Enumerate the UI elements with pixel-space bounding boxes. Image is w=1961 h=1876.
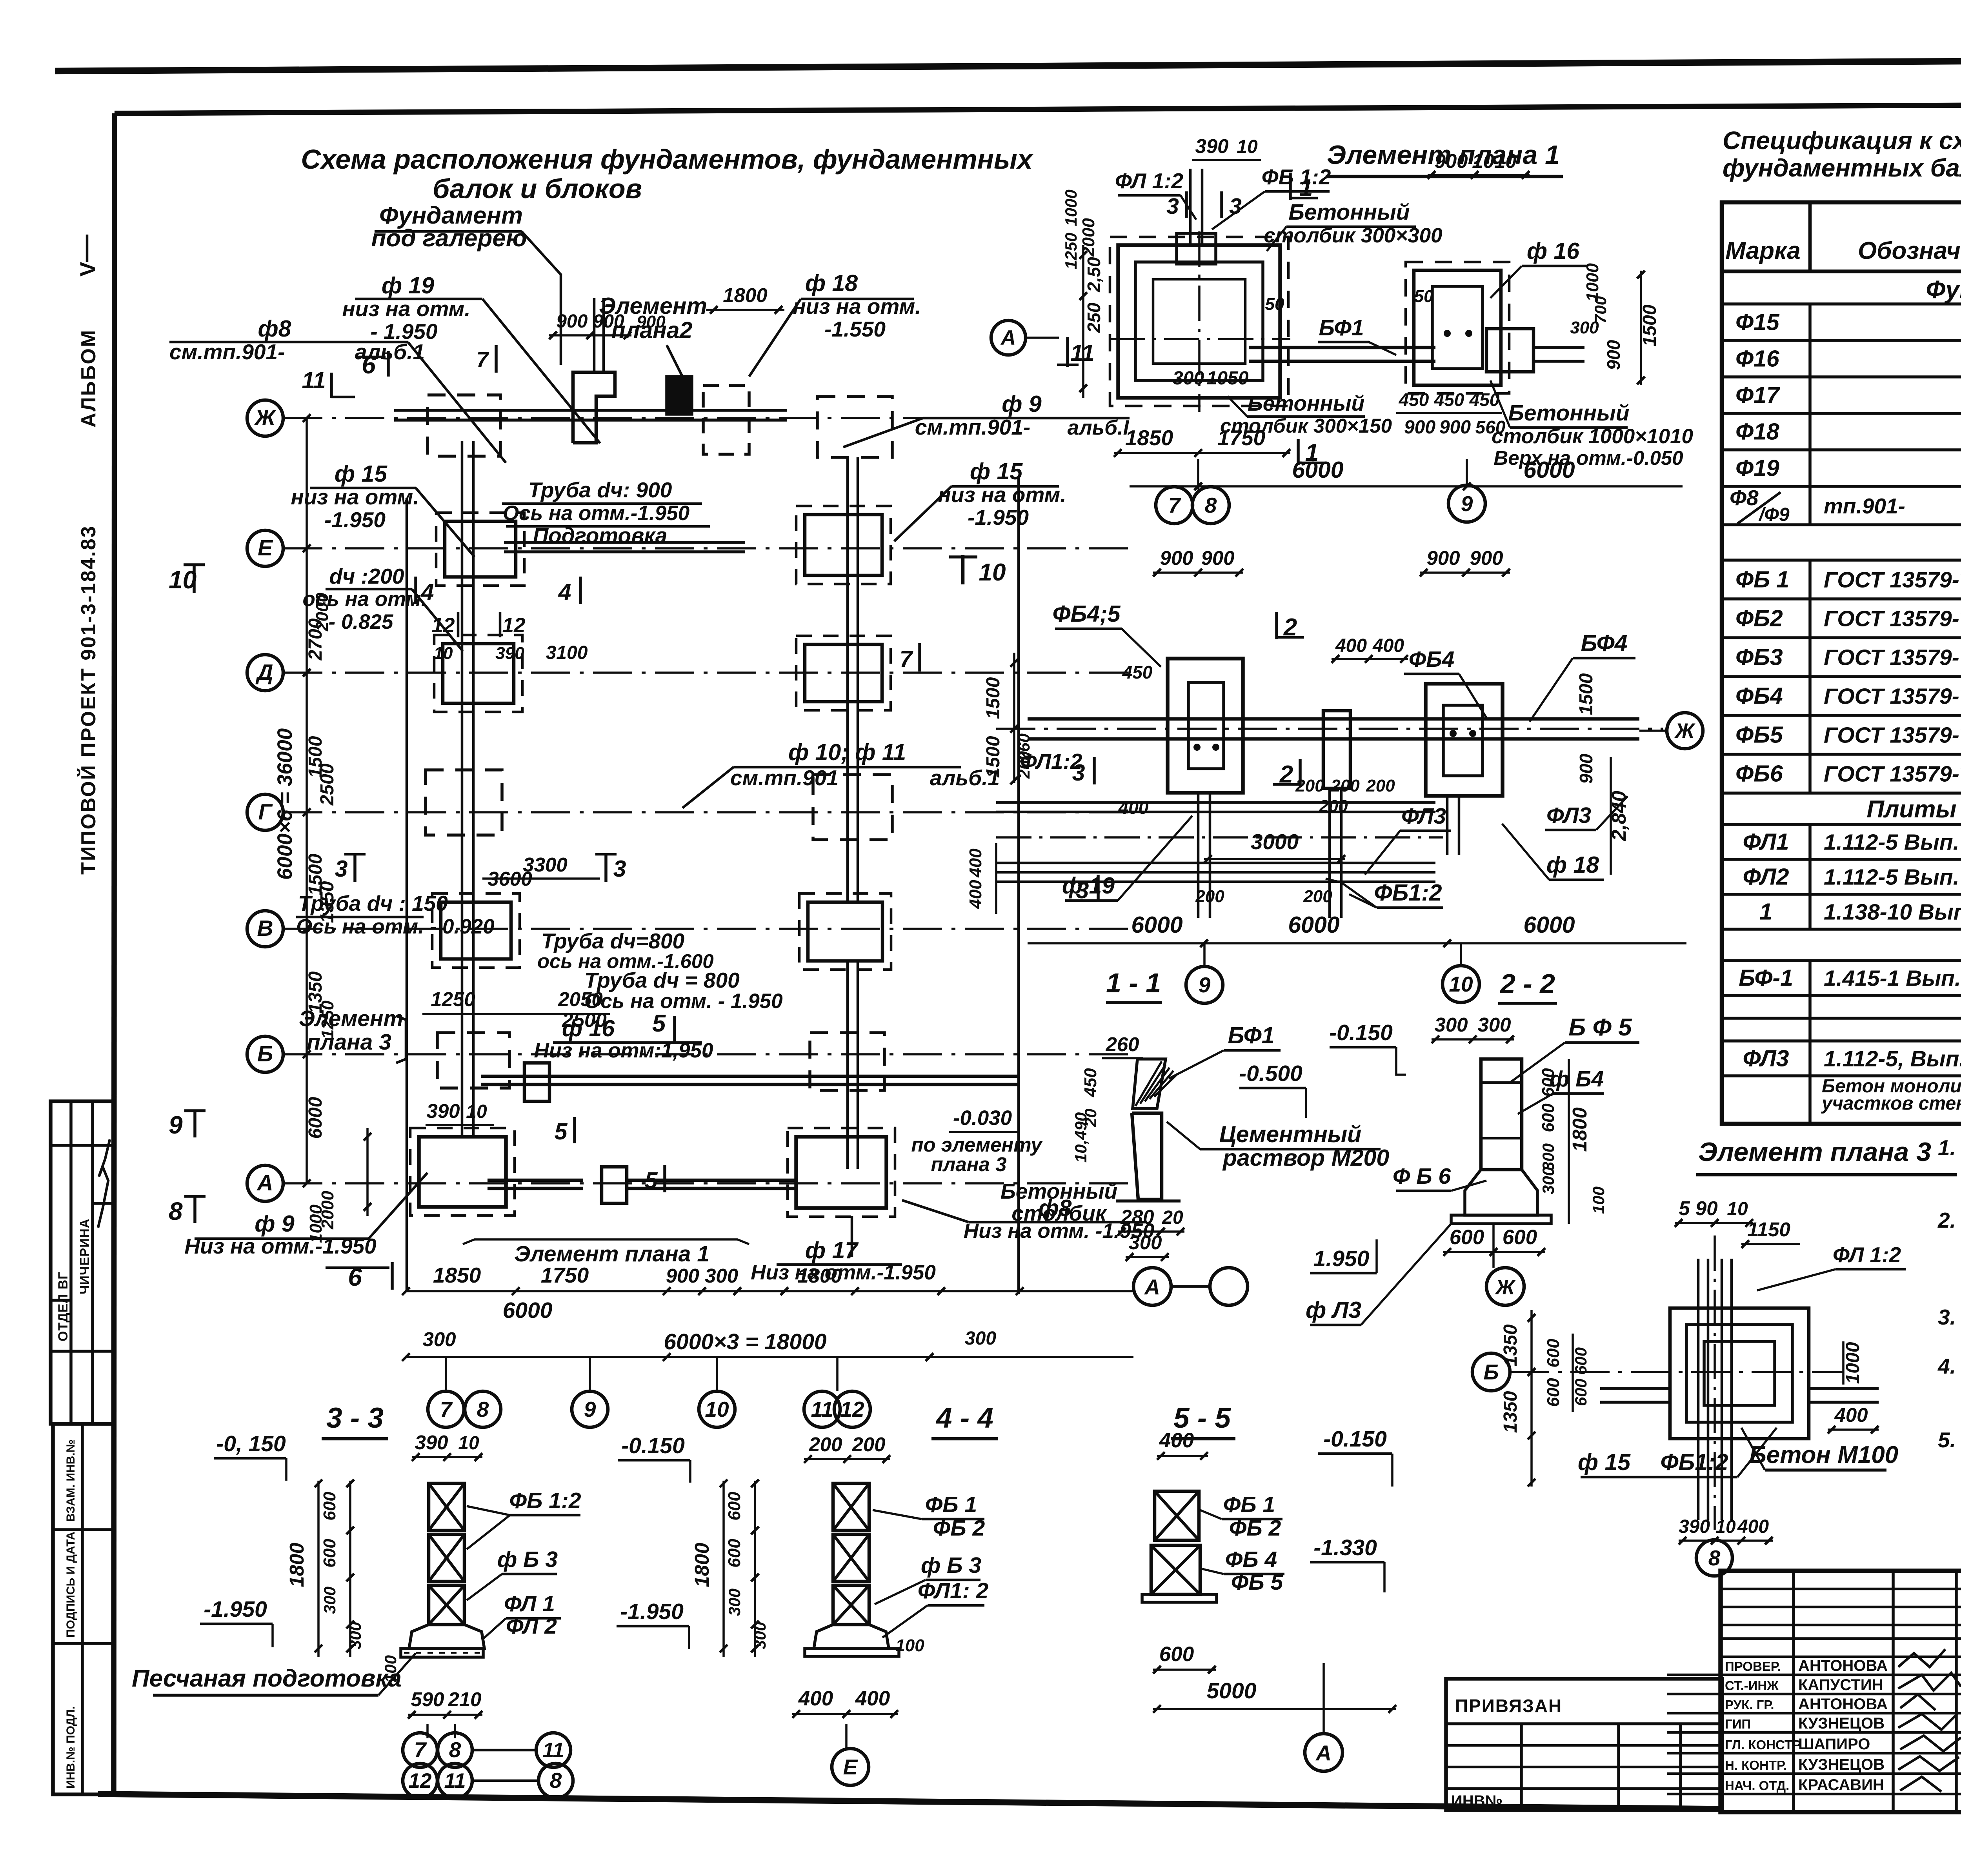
svg-text:300: 300 — [725, 1589, 744, 1616]
section: Блоки бетонные — [1722, 559, 1961, 562]
svg-text:590: 590 — [411, 1688, 444, 1710]
эп3 concentric rects — [1670, 1308, 1809, 1439]
section 4-4 circle Е — [832, 1749, 869, 1785]
svg-text:10: 10 — [466, 1101, 487, 1122]
svg-text:300: 300 — [1128, 1231, 1162, 1254]
svg-text:ФБ 1: ФБ 1 — [925, 1492, 977, 1517]
svg-text:ФЛ1: 2: ФЛ1: 2 — [918, 1578, 989, 1603]
svg-text:6000×3 = 18000: 6000×3 = 18000 — [664, 1329, 827, 1354]
svg-text:390: 390 — [1679, 1516, 1710, 1537]
svg-text:ФБ1:2: ФБ1:2 — [1660, 1449, 1728, 1475]
svg-text:390: 390 — [1195, 135, 1228, 157]
title block signature rows — [1721, 1674, 1961, 1676]
svg-text:11: 11 — [444, 1769, 466, 1792]
svg-text:10: 10 — [458, 1433, 479, 1454]
svg-text:260: 260 — [1105, 1033, 1139, 1055]
svg-text:Н. КОНТР.: Н. КОНТР. — [1725, 1758, 1787, 1772]
svg-text:4.: 4. — [1937, 1354, 1956, 1378]
svg-text:ФЛ 1: ФЛ 1 — [504, 1591, 555, 1616]
foundation column1 dashed at 1007 — [427, 395, 500, 456]
svg-text:200: 200 — [1330, 776, 1360, 795]
svg-text:тп.901-: тп.901- — [1824, 494, 1905, 518]
svg-text:ГОСТ 13579-78: ГОСТ 13579-78 — [1824, 723, 1961, 748]
foundation column1 big at A — [419, 1137, 506, 1207]
svg-text:450: 450 — [1434, 389, 1464, 410]
svg-text:6: 6 — [362, 351, 376, 379]
svg-text:РУК. ГР.: РУК. ГР. — [1725, 1698, 1774, 1712]
svg-text:5.: 5. — [1938, 1428, 1956, 1452]
svg-text:- 0.825: - 0.825 — [328, 610, 394, 633]
svg-text:ФБ 1: ФБ 1 — [1223, 1492, 1275, 1517]
svg-text:1050: 1050 — [1207, 368, 1249, 389]
svg-text:ф 15: ф 15 — [1578, 1449, 1631, 1475]
beam A row — [488, 1179, 583, 1182]
svg-text:200: 200 — [1195, 887, 1224, 906]
svg-text:900 900: 900 900 — [556, 311, 624, 332]
svg-text:200: 200 — [1319, 797, 1348, 816]
svg-text:1.415-1 Вып. 1: 1.415-1 Вып. 1 — [1824, 966, 1961, 991]
svg-text:900: 900 — [1603, 340, 1624, 370]
pipe column 2 — [846, 457, 849, 902]
section 1-1 base — [1116, 1199, 1181, 1203]
svg-text:Е: Е — [258, 535, 273, 560]
svg-text:-1.950: -1.950 — [620, 1599, 684, 1624]
table row ФБ 1 — [1722, 597, 1961, 600]
svg-text:400: 400 — [1834, 1404, 1868, 1426]
svg-text:600: 600 — [1572, 1379, 1590, 1406]
svg-text:10: 10 — [1715, 1516, 1736, 1537]
svg-text:2500: 2500 — [317, 763, 338, 806]
svg-text:250: 250 — [1084, 302, 1104, 333]
svg-text:ГИП: ГИП — [1725, 1717, 1751, 1731]
svg-text:390: 390 — [426, 1100, 460, 1122]
svg-text:900: 900 — [1470, 547, 1503, 569]
axis circle Ж — [247, 400, 283, 436]
section 2-2 base plate — [1451, 1215, 1551, 1224]
svg-text:9: 9 — [1199, 973, 1211, 997]
эп1 dims right 1500 900 — [1640, 271, 1642, 385]
svg-text:ф 10; ф 11: ф 10; ф 11 — [788, 739, 906, 765]
svg-text:1350: 1350 — [1500, 1324, 1521, 1366]
svg-text:600: 600 — [1544, 1339, 1563, 1368]
svg-text:9: 9 — [584, 1397, 596, 1421]
svg-text:ф 9: ф 9 — [255, 1211, 295, 1237]
svg-text:ГОСТ 13579-78: ГОСТ 13579-78 — [1824, 568, 1961, 593]
spec table outer frame — [1722, 202, 1961, 1124]
svg-text:1350: 1350 — [1500, 1391, 1521, 1433]
svg-text:12: 12 — [432, 614, 455, 637]
svg-text:БФ4: БФ4 — [1581, 630, 1627, 656]
section 3-3 base plate — [401, 1649, 483, 1657]
svg-text:5 90: 5 90 — [1679, 1197, 1717, 1219]
svg-text:280: 280 — [1120, 1206, 1154, 1228]
upper left stamp table — [51, 1101, 113, 1424]
svg-text:100: 100 — [381, 1655, 400, 1683]
svg-text:1500: 1500 — [983, 677, 1004, 719]
svg-text:300: 300 — [1539, 1167, 1557, 1194]
svg-text:Элемент: Элемент — [299, 1006, 403, 1031]
эп2 foundation 2 small — [1323, 711, 1350, 788]
svg-text:600: 600 — [1503, 1226, 1537, 1249]
svg-text:2 - 2: 2 - 2 — [1499, 968, 1555, 999]
svg-text:ШАПИРО: ШАПИРО — [1798, 1736, 1870, 1753]
svg-text:ОТДЕЛ ВГ: ОТДЕЛ ВГ — [56, 1272, 71, 1341]
svg-text:участков стен: участков стен — [1821, 1093, 1961, 1114]
section mark T10 — [961, 555, 965, 584]
svg-text:8: 8 — [550, 1768, 562, 1792]
svg-text:1 - 1: 1 - 1 — [1106, 968, 1161, 998]
axis dash-dot line В — [283, 928, 1133, 930]
axis dash-dot line Ж — [283, 417, 1133, 419]
table row ФБ5 — [1722, 753, 1961, 756]
svg-text:плана 3: плана 3 — [307, 1030, 391, 1055]
svg-text:200: 200 — [851, 1433, 885, 1456]
svg-text:400: 400 — [1372, 635, 1404, 656]
svg-text:1.: 1. — [1938, 1135, 1956, 1160]
svg-text:3600: 3600 — [488, 868, 532, 890]
svg-text:2,840: 2,840 — [1608, 791, 1630, 841]
svg-text:300: 300 — [422, 1328, 456, 1350]
table row ФБ4 — [1722, 714, 1961, 717]
axis dash-dot line Г — [283, 811, 1133, 813]
svg-text:КУЗНЕЦОВ: КУЗНЕЦОВ — [1798, 1756, 1885, 1773]
svg-text:ФБ 1: ФБ 1 — [1735, 567, 1789, 593]
svg-text:900: 900 — [1201, 547, 1234, 569]
svg-text:ИНВ.№ ПОДЛ.: ИНВ.№ ПОДЛ. — [64, 1706, 77, 1789]
svg-text:Верх на отм.-0.050: Верх на отм.-0.050 — [1493, 447, 1683, 469]
svg-text:Бетонный: Бетонный — [1248, 391, 1364, 415]
svg-text:ФБ 1:2: ФБ 1:2 — [509, 1488, 581, 1513]
plan long vertical wall right — [1017, 478, 1020, 1294]
svg-text:1250: 1250 — [1062, 233, 1080, 269]
foundation column1 dashed at 1963 — [426, 770, 502, 835]
эп1 beam — [1249, 346, 1435, 349]
svg-text:100: 100 — [1589, 1186, 1608, 1214]
эп1 bottom circles 7 8 9 — [1156, 487, 1193, 524]
эп3 axis circle Б — [1472, 1353, 1510, 1391]
svg-text:1000: 1000 — [1583, 263, 1602, 302]
svg-text:ФБ1:2: ФБ1:2 — [1374, 880, 1442, 906]
table row 1 — [1722, 928, 1961, 931]
svg-text:6000: 6000 — [305, 1097, 326, 1139]
svg-text:ось на отм.: ось на отм. — [303, 588, 427, 611]
svg-text:ПОДПИСЬ И ДАТА: ПОДПИСЬ И ДАТА — [64, 1532, 77, 1638]
svg-text:ФЛ3: ФЛ3 — [1743, 1046, 1789, 1072]
svg-text:ф 15: ф 15 — [970, 459, 1023, 484]
svg-text:АЛЬБОМ: АЛЬБОМ — [77, 329, 100, 428]
axis dash-dot line Б — [283, 1053, 1133, 1055]
svg-text:200: 200 — [1366, 776, 1395, 795]
svg-text:Г: Г — [258, 799, 273, 824]
svg-text:3: 3 — [613, 856, 626, 882]
pipe column 1 — [461, 441, 464, 1137]
svg-text:1000: 1000 — [1062, 189, 1080, 226]
title block grid — [1792, 1571, 1795, 1812]
axis dash-dot line Д — [283, 671, 1133, 674]
svg-text:Фундаменты монолитные: Фундаменты монолитные — [1926, 275, 1961, 304]
svg-text:600: 600 — [1450, 1226, 1484, 1249]
svg-text:ГОСТ 13579-78: ГОСТ 13579-78 — [1824, 684, 1961, 709]
beam B row — [481, 1075, 1019, 1078]
svg-text:V: V — [75, 262, 100, 277]
svg-text:10,490: 10,490 — [1071, 1112, 1090, 1163]
svg-text:по элементу: по элементу — [911, 1134, 1043, 1156]
foundation column2 solid at 1643 — [805, 644, 882, 702]
circle A top right of plan — [991, 320, 1026, 355]
svg-text:3 - 3: 3 - 3 — [326, 1402, 384, 1434]
svg-text:ФЛ 1:2: ФЛ 1:2 — [1833, 1243, 1901, 1267]
section 3-3 base flare — [409, 1625, 484, 1649]
эп2 foundation 3 — [1426, 684, 1503, 796]
svg-text:10: 10 — [705, 1397, 729, 1421]
svg-text:Ф19: Ф19 — [1735, 455, 1779, 481]
svg-text:ФЛ3: ФЛ3 — [1401, 804, 1446, 829]
foundation column1 dashed at 2633 — [437, 1033, 509, 1088]
svg-text:dч :200: dч :200 — [329, 564, 404, 588]
section: Плиты ж-б для ленточных фундаментов — [1722, 823, 1961, 826]
svg-text:2000: 2000 — [1079, 218, 1098, 257]
svg-text:300: 300 — [1477, 1014, 1511, 1036]
svg-text:-1.950: -1.950 — [324, 508, 386, 532]
bottom axis circles — [428, 1391, 464, 1427]
svg-text:1000: 1000 — [1843, 1342, 1863, 1384]
svg-text:1.950: 1.950 — [1313, 1246, 1370, 1271]
эп3 pipes vertical — [1697, 1259, 1700, 1520]
signature squiggle — [98, 1139, 110, 1228]
svg-text:1800: 1800 — [1568, 1107, 1591, 1152]
foundation column1 solid at 1641 — [443, 644, 514, 703]
axis circle Е — [247, 530, 283, 566]
svg-text:-0.150: -0.150 — [621, 1433, 685, 1458]
svg-text:8: 8 — [1708, 1546, 1721, 1570]
svg-text:4: 4 — [558, 579, 571, 605]
svg-text:450: 450 — [1399, 389, 1429, 410]
svg-text:ФБ6: ФБ6 — [1735, 761, 1783, 787]
эп1 foundation 2 — [1414, 270, 1501, 385]
svg-text:ФБ 4: ФБ 4 — [1225, 1547, 1277, 1572]
svg-text:900: 900 — [1439, 417, 1471, 438]
svg-text:столбик: столбик — [1011, 1201, 1108, 1225]
svg-text:400: 400 — [1159, 1429, 1194, 1452]
эп2 axis circle Ж — [1667, 713, 1703, 749]
svg-text:ф 18: ф 18 — [1546, 852, 1599, 878]
svg-text:ф 15: ф 15 — [335, 461, 387, 487]
svg-text:КРАСАВИН: КРАСАВИН — [1798, 1776, 1884, 1794]
svg-text:260: 260 — [1015, 751, 1033, 779]
svg-text:3.: 3. — [1938, 1305, 1956, 1329]
foundation column2 solid at 1312 — [805, 515, 882, 575]
svg-text:6000: 6000 — [503, 1298, 553, 1323]
эп1 left axis A circle — [1086, 368, 1087, 369]
svg-text:Бетон М100: Бетон М100 — [1749, 1441, 1898, 1468]
svg-text:фундаментных балок и блоков: фундаментных балок и блоков. — [1723, 154, 1961, 182]
эп1 right block — [1486, 329, 1534, 372]
section 4-4 vertical dim chain — [722, 1481, 725, 1657]
foundation column1 solid at 1329 — [445, 521, 516, 577]
svg-text:11: 11 — [542, 1739, 564, 1762]
svg-text:-0.030: -0.030 — [953, 1106, 1012, 1130]
svg-text:КАПУСТИН: КАПУСТИН — [1798, 1676, 1883, 1694]
svg-text:Ф Б 6: Ф Б 6 — [1393, 1164, 1451, 1189]
svg-text:100: 100 — [895, 1636, 924, 1655]
section 1-1 hatched beam top — [1133, 1059, 1166, 1108]
svg-text:300: 300 — [1173, 368, 1204, 389]
svg-text:1.112-5, Вып. 2: 1.112-5, Вып. 2 — [1824, 1046, 1961, 1072]
svg-text:1800: 1800 — [691, 1543, 713, 1587]
svg-text:12: 12 — [502, 614, 526, 637]
svg-text:4: 4 — [421, 579, 434, 605]
foundation column2 dashed at 1011 — [817, 397, 892, 457]
svg-text:1850: 1850 — [1125, 426, 1173, 450]
svg-text:300: 300 — [1570, 318, 1599, 337]
svg-text:ТИПОВОЙ ПРОЕКТ 901-3-184.: ТИПОВОЙ ПРОЕКТ 901-3-184.83 — [77, 525, 100, 875]
svg-text:2.: 2. — [1937, 1208, 1956, 1232]
svg-text:8: 8 — [449, 1738, 461, 1762]
svg-text:1500: 1500 — [1639, 304, 1660, 346]
svg-text:Труба dч: 900: Труба dч: 900 — [528, 478, 672, 502]
svg-text:3: 3 — [1229, 194, 1242, 219]
svg-text:Ф16: Ф16 — [1735, 346, 1780, 372]
svg-text:4 - 4: 4 - 4 — [935, 1402, 993, 1434]
svg-text:ф 9: ф 9 — [1002, 391, 1042, 417]
svg-text:1500: 1500 — [983, 736, 1004, 778]
svg-text:БФ1: БФ1 — [1228, 1023, 1274, 1048]
small block on beam A — [602, 1167, 627, 1203]
svg-text:7: 7 — [477, 347, 489, 371]
svg-text:ИНВ№: ИНВ№ — [1451, 1792, 1503, 1810]
svg-text:ф Л3: ф Л3 — [1306, 1297, 1361, 1323]
svg-text:12: 12 — [840, 1397, 864, 1421]
section 1-1 circles A — [1133, 1268, 1171, 1305]
svg-text:Песчаная подготовка: Песчаная подготовка — [132, 1665, 402, 1692]
svg-text:ф 19: ф 19 — [382, 273, 434, 298]
svg-text:Ось на отм. - 1.950: Ось на отм. - 1.950 — [584, 990, 783, 1013]
svg-text:1.112-5 Вып. 2: 1.112-5 Вып. 2 — [1824, 865, 1961, 890]
section 5-5 base plate — [1142, 1594, 1217, 1602]
svg-text:ПРИВЯЗАН: ПРИВЯЗАН — [1455, 1696, 1562, 1716]
svg-text:7: 7 — [1168, 493, 1181, 517]
svg-text:200: 200 — [808, 1433, 842, 1456]
svg-text:10: 10 — [979, 559, 1006, 586]
title block outer — [1721, 1571, 1961, 1812]
section 5-5 circle A — [1305, 1734, 1343, 1771]
svg-text:8: 8 — [1205, 493, 1217, 517]
svg-text:балок и блоков: балок и блоков — [433, 173, 642, 204]
table row БФ-1 — [1722, 994, 1961, 997]
svg-text:Ось на отм. - 0.920: Ось на отм. - 0.920 — [296, 915, 495, 938]
svg-text:ГОСТ 13579-78: ГОСТ 13579-78 — [1824, 645, 1961, 670]
svg-text:Бетонный: Бетонный — [1001, 1179, 1117, 1203]
axis dash-dot line Е — [283, 547, 1133, 550]
svg-text:210: 210 — [448, 1688, 481, 1710]
svg-text:3100: 3100 — [546, 642, 588, 663]
svg-text:900: 900 — [1576, 753, 1596, 784]
title block left stub lines — [1667, 1674, 1721, 1676]
inner frame bottom — [98, 1794, 1722, 1809]
svg-text:Д: Д — [255, 660, 273, 685]
эп3 beam left stub — [1600, 1387, 1670, 1390]
svg-text:1.112-5 Вып. 2: 1.112-5 Вып. 2 — [1824, 830, 1961, 855]
svg-text:/Ф9: /Ф9 — [1758, 504, 1790, 525]
svg-text:Бетонный: Бетонный — [1288, 200, 1410, 225]
svg-text:50: 50 — [1414, 287, 1433, 306]
empty table rows — [1722, 1017, 1961, 1020]
plan long vertical wall left — [406, 498, 408, 1290]
svg-text:ГОСТ 13579-78: ГОСТ 13579-78 — [1824, 762, 1961, 787]
svg-text:Труба dч=800: Труба dч=800 — [541, 929, 685, 953]
svg-text:400: 400 — [1335, 635, 1367, 656]
svg-text:ф 18: ф 18 — [805, 270, 858, 296]
svg-text:АНТОНОВА: АНТОНОВА — [1798, 1696, 1888, 1713]
svg-text:600: 600 — [725, 1539, 744, 1568]
beam cylinder БФ1 at Б — [524, 1063, 549, 1101]
svg-text:ф 16: ф 16 — [562, 1015, 615, 1041]
svg-text:400: 400 — [798, 1687, 833, 1710]
svg-text:ФБ2: ФБ2 — [1735, 606, 1783, 631]
beam E row — [504, 541, 745, 544]
svg-text:600: 600 — [1539, 1103, 1558, 1132]
svg-text:6000: 6000 — [1131, 912, 1182, 938]
svg-text:10: 10 — [1237, 136, 1258, 157]
эп3 centerline horizontal — [1510, 1371, 1843, 1373]
table row Ф16 — [1722, 375, 1961, 378]
svg-text:450: 450 — [1122, 662, 1153, 682]
table row ФЛ1 — [1722, 858, 1961, 861]
svg-text:1250: 1250 — [431, 988, 475, 1010]
axis dash-dot line А — [283, 1182, 1133, 1185]
svg-text:300: 300 — [751, 1622, 769, 1649]
svg-text:ф Б 3: ф Б 3 — [921, 1553, 981, 1578]
inner frame left — [114, 113, 115, 1794]
svg-text:ф8: ф8 — [258, 316, 291, 342]
svg-text:10: 10 — [169, 566, 196, 594]
svg-text:7: 7 — [440, 1397, 453, 1421]
эп2 beam long — [1028, 717, 1639, 721]
section 4-4 block column — [833, 1483, 869, 1530]
svg-text:400: 400 — [1118, 797, 1149, 818]
svg-text:В: В — [257, 916, 273, 941]
svg-text:Марка: Марка — [1725, 237, 1800, 264]
table row ФЛ2 — [1722, 893, 1961, 896]
svg-text:СТ.-ИНЖ: СТ.-ИНЖ — [1725, 1678, 1779, 1693]
svg-text:ГОСТ 13579-78: ГОСТ 13579-78 — [1824, 606, 1961, 631]
svg-text:600: 600 — [1544, 1378, 1563, 1407]
spec table header — [1808, 202, 1812, 271]
svg-text:Цементный: Цементный — [1219, 1121, 1361, 1147]
эп2 vertical dims right — [1610, 757, 1612, 875]
svg-text:7: 7 — [900, 646, 914, 672]
svg-text:ФБ4;5: ФБ4;5 — [1052, 601, 1121, 627]
svg-text:Ф8: Ф8 — [1730, 486, 1759, 510]
svg-text:Плиты ж-б для ленточных фундам: Плиты ж-б для ленточных фундаментов — [1866, 796, 1961, 823]
signatures squiggles — [1898, 1649, 1945, 1667]
svg-text:НАЧ. ОТД.: НАЧ. ОТД. — [1725, 1778, 1789, 1793]
svg-text:400: 400 — [1737, 1516, 1769, 1537]
section 2-2 column — [1481, 1059, 1522, 1170]
svg-text:Ф15: Ф15 — [1735, 309, 1780, 335]
svg-text:Ф17: Ф17 — [1735, 382, 1781, 408]
svg-text:Труба dч = 800: Труба dч = 800 — [584, 968, 740, 992]
lower left stamp table — [53, 1424, 113, 1794]
axis circle В — [247, 911, 283, 947]
svg-text:Схема расположения фундамент: Схема расположения фундаментов, фундамен… — [301, 144, 1033, 175]
svg-text:12: 12 — [409, 1769, 432, 1792]
svg-text:2000: 2000 — [318, 1191, 337, 1230]
svg-text:600: 600 — [1539, 1068, 1558, 1097]
svg-text:1850: 1850 — [433, 1263, 481, 1287]
svg-text:Ф18: Ф18 — [1735, 419, 1779, 445]
svg-text:АНТОНОВА: АНТОНОВА — [1798, 1657, 1888, 1674]
